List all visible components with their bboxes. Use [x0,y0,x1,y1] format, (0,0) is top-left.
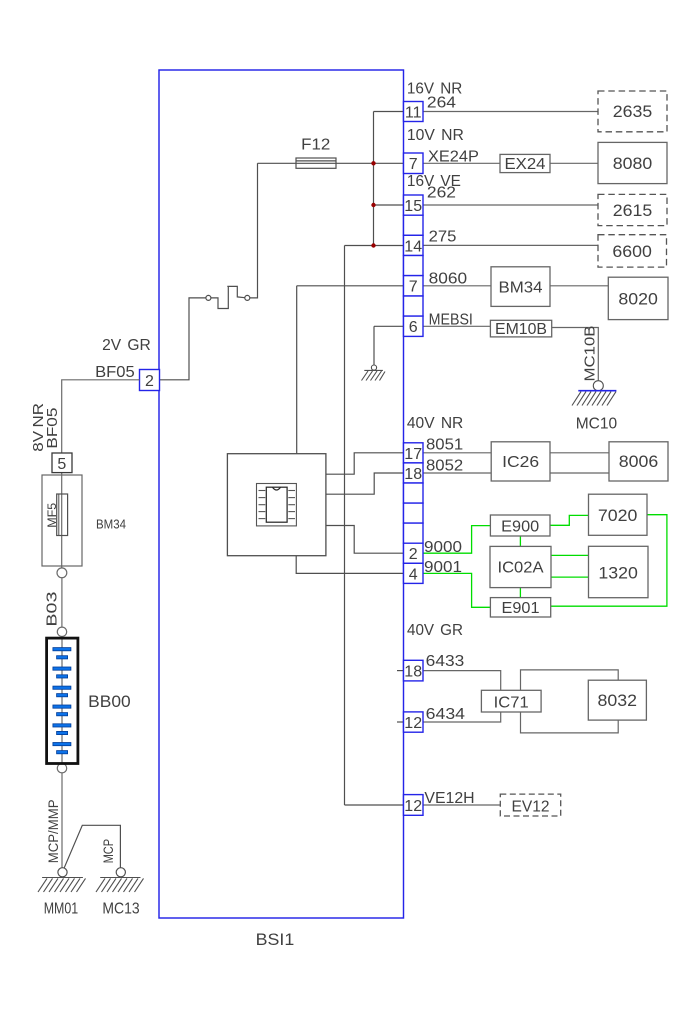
svg-text:8020: 8020 [618,290,658,309]
connector EX24 [500,154,550,172]
pin 15 [404,195,424,215]
wire pin18 6433 stub [397,670,404,672]
connector EM10B [490,320,551,337]
svg-text:12: 12 [404,715,422,732]
svg-text:18: 18 [404,466,422,483]
unit IC71 [481,690,541,712]
battery BB00 [47,638,78,763]
svg-text:9001: 9001 [424,559,462,576]
wire pin17 to IC26 [423,452,491,454]
svg-text:9000: 9000 [424,539,462,556]
wire IC71 to 8032 bottom [521,712,619,733]
svg-text:8060: 8060 [429,271,468,288]
ECU box BSI1 [159,70,404,918]
wire switch right riser [250,163,258,298]
fuse F12 [296,158,336,168]
pin 7 8060 [404,276,424,296]
switch blade [64,825,120,868]
svg-text:MEBSI: MEBSI [429,312,473,329]
wire IC26 to 8006 a [550,452,609,454]
pin 5 connector box [52,453,72,473]
svg-text:BF05: BF05 [44,408,61,449]
fuse BM34 outer box [42,475,82,566]
svg-text:BM34: BM34 [499,280,543,297]
svg-text:8080: 8080 [613,154,653,173]
svg-text:1320: 1320 [598,564,638,583]
wire pin6 internal [374,325,404,327]
wire pin18 to IC26 [423,472,491,474]
pin 2 [404,543,424,563]
ground MC10 blue line [578,390,616,392]
wire pin12 6434 stub [397,721,404,723]
svg-text:MC13: MC13 [102,901,139,918]
wire pin6 to EM10B [423,325,490,327]
wire switch left to pin2 [160,298,206,380]
wire B03 segment [61,578,63,627]
connector E900 [490,515,550,536]
wire down to CPU top [296,286,298,454]
switch contact S1 [206,286,250,308]
svg-text:EX24: EX24 [505,156,546,173]
pin 18 6433 [404,660,424,681]
terminal circle BB00 top [57,627,66,636]
svg-text:7: 7 [409,156,418,173]
svg-text:275: 275 [429,229,457,246]
connector EV12 (dashed) [500,794,560,816]
pin empty e [404,503,424,523]
pin 4 [404,563,424,583]
unit 7020 [589,494,648,535]
unit 8020 [608,277,668,319]
wire VE12H internal [345,804,404,806]
wire battery internal [61,638,63,763]
svg-text:8032: 8032 [598,691,638,710]
wire pin18 6433 to IC71 [423,671,501,691]
svg-text:MM01: MM01 [44,901,79,918]
pin 6 [404,316,424,336]
svg-text:BM34: BM34 [96,517,126,532]
svg-text:15: 15 [404,198,422,215]
wire 9001 pin4 to E901 [423,573,490,607]
svg-text:2V GR: 2V GR [102,337,151,354]
unit IC26 [491,442,550,481]
wire junction bus vertical [373,112,375,246]
pin 14 [404,235,424,255]
svg-text:XE24P: XE24P [428,149,479,166]
pin 7 XE24P [404,153,424,174]
wire through fuse BM34 [61,473,63,568]
svg-text:MCP/MMP: MCP/MMP [46,800,61,864]
wire CPU to pin4 [296,556,403,574]
wire pin11 to 2635 [423,111,598,113]
ground terminal circle MM01 [58,868,67,877]
svg-text:2: 2 [145,373,154,390]
svg-text:BB00: BB00 [88,692,131,711]
svg-text:EV12: EV12 [512,799,550,816]
svg-text:18: 18 [404,664,422,681]
pin empty c [404,296,424,316]
svg-text:MC10B: MC10B [582,326,599,382]
svg-text:MF5: MF5 [45,502,59,527]
pin 18 [404,463,424,483]
IC chip symbol [257,484,297,526]
svg-text:7020: 7020 [598,506,638,525]
svg-text:2: 2 [409,546,418,563]
svg-text:MCP: MCP [101,839,116,863]
wire long vertical pin14 to VE12H [344,246,346,806]
wire CPU to pin17 [326,453,404,474]
svg-text:12: 12 [404,798,422,815]
unit 1320 [589,546,649,597]
wire pin15 to 2615 [423,204,598,206]
svg-text:BF05: BF05 [95,364,135,381]
switch MCP/MMP [58,825,126,877]
svg-text:5: 5 [57,456,66,473]
svg-text:EM10B: EM10B [495,321,547,338]
svg-text:14: 14 [404,238,422,255]
svg-text:262: 262 [427,185,456,202]
CPU block U1 [227,454,326,556]
ground internal (below pin 6) [362,365,386,381]
wire pin15 internal stub [374,204,404,206]
connector 6600 (dashed) [598,235,667,267]
wire pin14 internal [345,245,404,247]
pin 12 VE12H [404,795,424,816]
svg-text:6434: 6434 [426,706,465,723]
svg-text:8052: 8052 [426,457,463,474]
pin 12 6434 [404,712,424,732]
svg-text:B03: B03 [44,592,61,627]
wire pin7 to BM34 [423,285,491,287]
wire pin14 to 6600 [423,244,598,246]
wire BM34 to 8020 [550,285,608,287]
wire IC02A to 1320 a [551,554,589,556]
wire pin2 to BF05 branch [62,380,140,453]
pin empty f [404,523,424,543]
wire battery to MCP [61,773,63,868]
wire EX24 to 8080 [550,162,598,164]
svg-text:IC02A: IC02A [498,560,544,577]
terminal circle BB00 bottom [57,764,66,773]
wire pin7 8060 internal [297,285,404,287]
wire 9000 pin2 to E900 [423,526,490,554]
wire IC02A to E901 [519,588,521,598]
pin 11 [404,102,424,122]
pin 17 [404,443,424,463]
svg-text:40V GR: 40V GR [407,622,463,639]
ground terminal circle MC13 [116,868,125,877]
wire CPU to pin2 [326,526,404,554]
pin empty a [404,215,424,235]
connector 2615 (dashed) [598,194,667,225]
svg-text:2635: 2635 [613,102,653,121]
wire IC26 to 8006 b [550,472,609,474]
wire IC02A to 1320 b [551,576,589,578]
wire pin11 internal [374,111,404,113]
svg-text:IC26: IC26 [502,454,539,471]
unit BM34 [491,267,550,307]
wire pin12 6434 to IC71 [423,712,501,722]
svg-text:11: 11 [405,105,422,122]
unit 8080 [598,142,667,183]
svg-text:6: 6 [409,319,418,336]
svg-text:10V NR: 10V NR [407,127,464,144]
wire E900 to 7020 [550,515,589,525]
svg-text:2615: 2615 [613,201,653,220]
svg-text:E900: E900 [501,519,539,536]
svg-text:E901: E901 [502,600,540,617]
connector 2635 (dashed) [598,91,667,132]
pin 2 left BF05 [140,370,160,391]
wire EM10B to ground MC10 [552,328,599,381]
wire pin12 to EV12 [423,804,500,806]
unit 8006 [609,442,668,481]
junction dot [371,243,375,247]
svg-text:8006: 8006 [619,452,659,471]
wire 7020 to E901 [551,515,667,607]
ground MM01 [38,878,86,893]
wire down to internal ground [373,326,375,365]
svg-text:4: 4 [409,566,418,583]
svg-text:BSI1: BSI1 [256,930,295,949]
svg-text:MC10: MC10 [576,416,617,433]
svg-text:7: 7 [409,279,418,296]
svg-text:6600: 6600 [612,242,652,261]
wire F12 feed [258,162,404,164]
svg-text:40V NR: 40V NR [407,415,463,432]
wire IC71 to 8032 top [521,670,619,690]
junction dot [371,203,375,207]
junction dot [371,161,375,165]
unit IC02A [490,546,551,587]
svg-text:8051: 8051 [426,437,463,454]
wire E900 to IC02A [519,536,521,546]
svg-text:264: 264 [427,95,456,112]
svg-text:17: 17 [404,446,422,463]
svg-text:6433: 6433 [426,653,465,670]
fuse BM34 cartridge [57,494,68,536]
ground MC13 [96,878,144,893]
pin empty d [404,483,424,503]
svg-text:F12: F12 [301,137,330,154]
wire CPU to pin18 [326,473,404,494]
wire pin7 to EX24 [423,162,500,164]
terminal circle BM34 bottom [57,568,67,578]
unit 8032 [588,680,646,720]
svg-text:VE12H: VE12H [424,790,474,807]
svg-text:IC71: IC71 [494,695,529,712]
pin empty b [404,256,424,276]
connector E901 [490,598,550,617]
